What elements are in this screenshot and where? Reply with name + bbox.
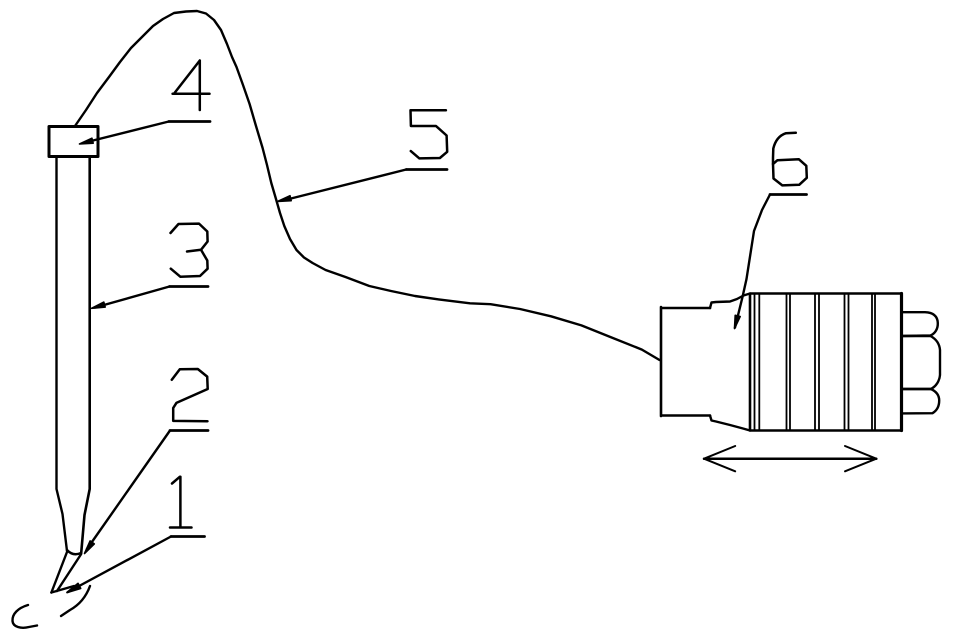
label 1 digit [170, 477, 192, 528]
label 6 digit [773, 133, 796, 164]
tip spark curve [61, 586, 90, 616]
rib pair 2 [787, 294, 791, 431]
label 5 underline [406, 168, 447, 171]
leader arrow 1 [68, 537, 171, 593]
needle tip left edge [51, 552, 67, 593]
cable 5 (from cap to connector) [75, 11, 660, 360]
probe shaft left edge [57, 158, 68, 551]
leader arrow 3 [95, 287, 170, 308]
rib pair 3 [815, 294, 819, 431]
connector body right edge thick [900, 294, 903, 431]
label 6 underline [770, 193, 807, 196]
tip neck arc [67, 550, 81, 554]
label 4 underline [169, 120, 210, 123]
connector nose [661, 307, 710, 416]
connector step top [710, 294, 750, 309]
label 1 underline [171, 535, 205, 538]
label 2 underline [170, 429, 208, 432]
label 2 digit [172, 369, 208, 421]
leader arrow 4 [83, 122, 169, 144]
needle tip point [51, 586, 74, 593]
connector step bottom [710, 416, 750, 431]
label 4 digit [173, 61, 210, 111]
label 3 digit [171, 224, 208, 277]
rib pair 5 [872, 294, 875, 431]
leader arrow 5 [283, 170, 406, 201]
middle tab [902, 336, 941, 389]
rib pair 4 [845, 294, 849, 431]
leader arrow 6 [735, 195, 770, 328]
rib pair 1 [755, 294, 760, 431]
bottom pin [902, 389, 940, 413]
double arrow [704, 457, 876, 460]
probe shaft right edge [81, 158, 90, 553]
top pin [902, 312, 938, 336]
tip curl [12, 605, 37, 628]
leader arrow 2 [87, 431, 170, 550]
label 5 digit [411, 110, 448, 158]
label 3 underline [170, 285, 209, 288]
cap 4 (probe top cap rectangle) [49, 127, 98, 157]
connector body [750, 294, 902, 431]
needle tip right edge [57, 554, 81, 591]
